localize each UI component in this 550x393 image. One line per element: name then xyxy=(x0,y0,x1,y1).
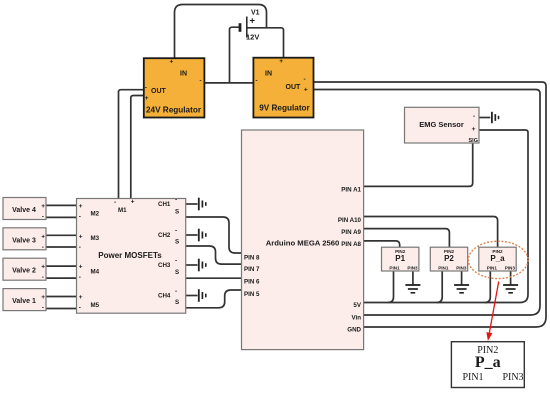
svg-text:+: + xyxy=(79,294,83,301)
svg-text:S: S xyxy=(175,208,179,215)
wire CH4 - to ground stub xyxy=(186,295,198,297)
svg-text:OUT: OUT xyxy=(286,84,302,91)
svg-text:-: - xyxy=(79,214,81,221)
svg-text:P2: P2 xyxy=(444,254,454,263)
svg-text:IN: IN xyxy=(180,71,187,78)
wire EMG+ down right side to 5V pin xyxy=(364,130,528,303)
svg-text:9V Regulator: 9V Regulator xyxy=(259,104,310,113)
svg-text:-: - xyxy=(42,244,44,251)
svg-text:-: - xyxy=(42,274,44,281)
wire Valve2 - to M4 xyxy=(46,277,77,279)
wire PIN A10 to P_a PIN2 xyxy=(364,217,498,248)
svg-text:PIN3: PIN3 xyxy=(407,266,418,271)
wire Valve4 + to M2 xyxy=(46,204,77,206)
valve 3 xyxy=(3,228,46,251)
svg-text:M3: M3 xyxy=(91,235,100,242)
sensor P1 xyxy=(382,247,419,271)
wire EMG SIG to PIN A1 xyxy=(364,143,473,186)
svg-text:S: S xyxy=(175,238,179,245)
svg-text:PIN3: PIN3 xyxy=(456,266,467,271)
wire battery- down to 12V- rail xyxy=(230,27,242,83)
wire CH2 S to PIN 7 xyxy=(186,246,242,264)
wire CH3 S to PIN 6 xyxy=(186,277,242,279)
svg-text:Vin: Vin xyxy=(351,315,361,322)
wire Valve1 - to M5 xyxy=(46,308,77,310)
svg-text:PIN 8: PIN 8 xyxy=(244,255,260,262)
svg-text:P_a: P_a xyxy=(490,254,505,263)
ground P1 xyxy=(405,285,420,293)
wire P_a PIN1 to 5V rail xyxy=(485,271,491,303)
callout detail box P_a pinout xyxy=(451,342,524,388)
wire CH1 S to PIN 8 xyxy=(186,217,242,253)
wire PIN A8 to P1 PIN2 xyxy=(364,241,400,247)
svg-text:+: + xyxy=(79,264,83,271)
svg-text:PIN1: PIN1 xyxy=(487,266,498,271)
svg-text:-: - xyxy=(304,76,306,83)
svg-text:PIN A10: PIN A10 xyxy=(338,217,362,224)
regulator 24V xyxy=(144,58,205,117)
svg-text:Arduino MEGA 2560: Arduino MEGA 2560 xyxy=(266,239,340,248)
wire 24V OUT- to M1 minus xyxy=(119,90,144,199)
wire CH4 S to PIN 5 xyxy=(186,290,242,308)
wire CH2 - to ground stub xyxy=(186,234,198,236)
svg-text:-: - xyxy=(175,228,177,235)
regulator 9V xyxy=(253,58,313,118)
svg-text:-: - xyxy=(42,305,44,312)
svg-text:+: + xyxy=(41,294,45,301)
svg-text:-: - xyxy=(473,113,475,120)
wire Valve3 + to M3 xyxy=(46,234,77,236)
svg-text:-: - xyxy=(175,197,177,204)
EMG sensor box xyxy=(405,107,480,144)
svg-text:+: + xyxy=(304,86,308,93)
svg-text:+: + xyxy=(41,233,45,240)
ground CH4 (rotated) xyxy=(199,289,206,302)
svg-text:Valve 3: Valve 3 xyxy=(12,237,36,244)
ground P_a xyxy=(503,285,518,293)
svg-text:PIN 5: PIN 5 xyxy=(244,291,260,298)
svg-text:PIN 7: PIN 7 xyxy=(244,266,260,273)
red callout arrow xyxy=(486,282,498,342)
svg-text:+: + xyxy=(250,15,256,26)
svg-text:Valve 1: Valve 1 xyxy=(12,298,36,305)
svg-text:SIG: SIG xyxy=(469,138,478,144)
svg-text:PIN A8: PIN A8 xyxy=(341,241,361,248)
wire P2 PIN1 to 5V rail xyxy=(437,271,443,303)
wire 12V- rail between 24V IN- and 9V IN- xyxy=(204,82,253,84)
ground CH1 (rotated) xyxy=(199,198,206,211)
wire 24V IN+ to top rail to battery+ junction xyxy=(175,5,267,59)
svg-text:+: + xyxy=(41,203,45,210)
svg-text:+: + xyxy=(79,203,83,210)
svg-text:Valve 2: Valve 2 xyxy=(12,268,36,275)
dashed highlight ellipse around P_a xyxy=(468,241,528,278)
wire Valve4 - to M2 xyxy=(46,216,77,218)
wire 9V OUT- to GND pin xyxy=(314,82,547,327)
wire Valve3 - to M3 xyxy=(46,246,77,248)
ground P2 xyxy=(454,285,469,293)
svg-text:Valve 4: Valve 4 xyxy=(12,207,36,214)
svg-text:CH2: CH2 xyxy=(158,232,171,239)
svg-text:-: - xyxy=(175,258,177,265)
svg-text:M4: M4 xyxy=(91,269,100,276)
svg-text:+: + xyxy=(145,95,149,102)
wire P1 PIN1 to 5V rail xyxy=(388,271,394,303)
svg-text:CH3: CH3 xyxy=(158,262,171,269)
svg-text:PIN1: PIN1 xyxy=(462,372,483,383)
wire 24V OUT+ to M1 plus xyxy=(131,96,144,199)
svg-text:+: + xyxy=(131,199,135,206)
svg-text:PIN1: PIN1 xyxy=(389,266,400,271)
wire CH1 - to ground stub xyxy=(186,203,198,205)
svg-text:P1: P1 xyxy=(395,254,405,263)
svg-text:P_a: P_a xyxy=(475,354,501,371)
svg-text:-: - xyxy=(175,288,177,295)
svg-text:PIN 6: PIN 6 xyxy=(244,279,260,286)
svg-text:-: - xyxy=(114,199,116,206)
svg-text:Power MOSFETs: Power MOSFETs xyxy=(98,251,162,260)
svg-text:+: + xyxy=(472,126,476,133)
wire EMG - to ground stub xyxy=(479,117,490,119)
wire P_a PIN3 to ground xyxy=(510,271,512,285)
ground EMG (rotated) xyxy=(492,112,499,123)
svg-text:-: - xyxy=(255,78,257,85)
wire CH3 - to ground stub xyxy=(186,264,198,266)
valve 4 xyxy=(3,198,46,221)
svg-text:-: - xyxy=(79,244,81,251)
svg-text:-: - xyxy=(79,305,81,312)
svg-text:+: + xyxy=(279,58,283,65)
wire 9V OUT+ to Vin pin xyxy=(314,90,541,316)
svg-text:-: - xyxy=(79,274,81,281)
svg-text:IN: IN xyxy=(265,71,272,78)
wire P2 PIN3 to ground xyxy=(461,271,463,285)
battery V1 xyxy=(240,10,260,42)
svg-text:PIN1: PIN1 xyxy=(438,266,449,271)
Power MOSFETs box xyxy=(77,197,186,314)
svg-text:PIN A9: PIN A9 xyxy=(341,229,361,236)
svg-text:CH4: CH4 xyxy=(158,293,171,300)
svg-text:S: S xyxy=(175,299,179,306)
svg-text:12V: 12V xyxy=(246,33,259,42)
wire PIN A9 to P2 PIN2 xyxy=(364,229,450,248)
svg-text:EMG Sensor: EMG Sensor xyxy=(419,120,464,129)
svg-text:-: - xyxy=(145,85,147,92)
valve 2 xyxy=(3,258,46,281)
ground CH3 (rotated) xyxy=(199,259,206,272)
svg-text:GND: GND xyxy=(347,326,361,333)
svg-text:M1: M1 xyxy=(118,207,127,214)
ground CH2 (rotated) xyxy=(199,229,206,242)
Arduino MEGA 2560 box xyxy=(242,130,364,350)
svg-text:PIN A1: PIN A1 xyxy=(341,187,361,194)
sensor P_a xyxy=(479,247,516,271)
sensor P2 xyxy=(430,247,467,271)
svg-text:M2: M2 xyxy=(91,210,100,217)
svg-text:PIN3: PIN3 xyxy=(502,372,523,383)
svg-text:+: + xyxy=(41,264,45,271)
svg-text:M5: M5 xyxy=(91,302,100,309)
svg-text:-: - xyxy=(200,78,202,85)
wire Valve1 + to M5 xyxy=(46,296,77,298)
valve 1 xyxy=(3,289,46,312)
svg-text:24V Regulator: 24V Regulator xyxy=(146,105,202,114)
svg-text:OUT: OUT xyxy=(151,88,167,95)
wire P1 PIN3 to ground xyxy=(412,271,414,285)
svg-text:S: S xyxy=(175,269,179,276)
svg-text:5V: 5V xyxy=(353,302,361,309)
svg-text:-: - xyxy=(42,214,44,221)
svg-text:CH1: CH1 xyxy=(158,201,171,208)
svg-text:+: + xyxy=(170,59,174,66)
svg-text:PIN3: PIN3 xyxy=(505,266,516,271)
wire battery+ to 9V IN+ xyxy=(248,28,284,58)
wire Valve2 + to M4 xyxy=(46,265,77,267)
svg-text:+: + xyxy=(79,233,83,240)
